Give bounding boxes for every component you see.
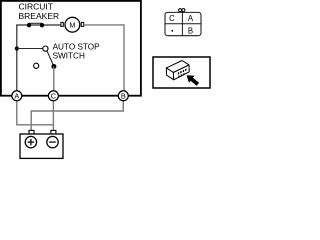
component box [1, 1, 141, 96]
svg-text:SWITCH: SWITCH [53, 52, 85, 61]
svg-text:A: A [14, 91, 19, 100]
node junction [15, 46, 19, 50]
svg-text:A: A [188, 14, 194, 23]
pointer arrow [187, 75, 200, 86]
connector body [166, 61, 189, 80]
wire [52, 101, 54, 131]
svg-text:M: M [69, 20, 75, 29]
battery BAT [20, 130, 63, 158]
svg-text:C: C [169, 14, 175, 23]
circuit breaker CB [27, 23, 44, 27]
svg-text:CIRCUIT: CIRCUIT [19, 2, 53, 12]
wire [84, 25, 124, 91]
svg-text:B: B [121, 91, 126, 100]
auto stop switch S1 [17, 46, 57, 91]
wire [17, 25, 61, 91]
connector pinout box [165, 9, 201, 36]
svg-text:BREAKER: BREAKER [19, 11, 60, 21]
terminal A [12, 91, 22, 101]
connector view box [153, 57, 210, 88]
wire [17, 101, 54, 125]
motor M1 [61, 17, 84, 32]
terminal C [48, 91, 58, 101]
svg-text:AUTO STOP: AUTO STOP [53, 42, 101, 51]
pin dot [172, 30, 174, 32]
svg-text:B: B [188, 26, 193, 35]
wire [31, 101, 123, 131]
terminal B [118, 91, 128, 101]
svg-text:C: C [51, 91, 57, 100]
connector terminals [178, 68, 187, 78]
